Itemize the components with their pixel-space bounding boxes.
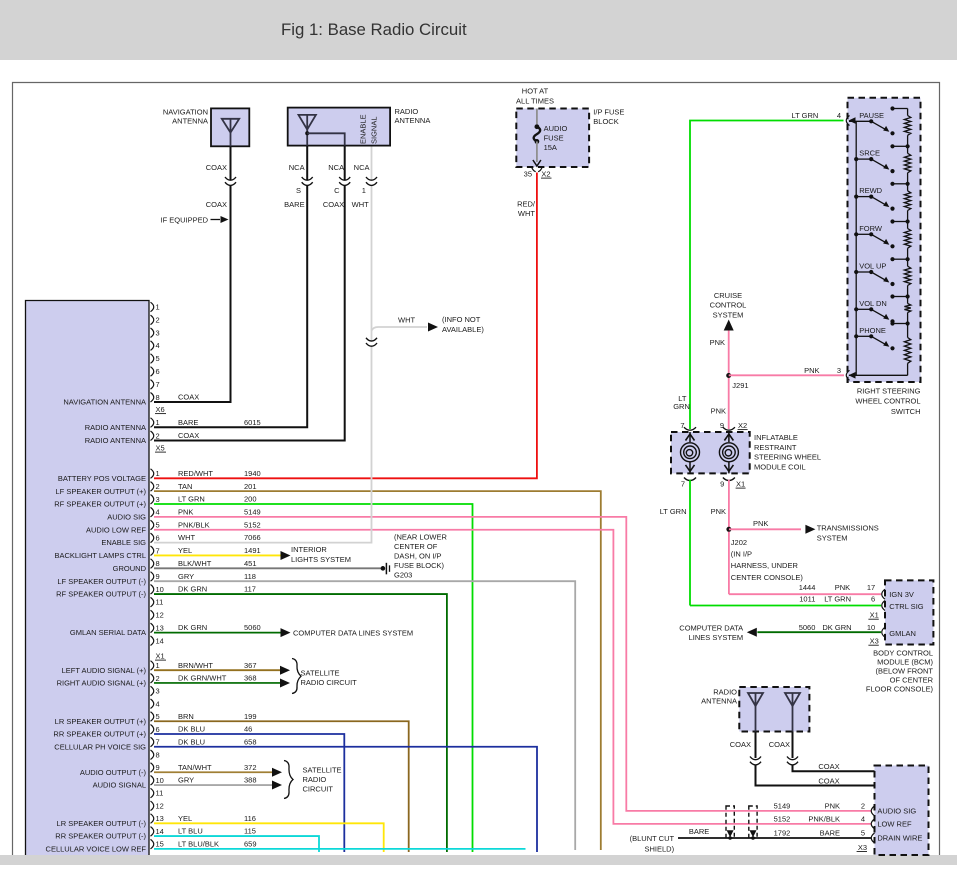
svg-text:COAX: COAX xyxy=(206,200,227,209)
svg-text:(BELOW FRONT: (BELOW FRONT xyxy=(876,667,934,676)
svg-text:SHIELD): SHIELD) xyxy=(645,845,675,854)
svg-text:BLK/WHT: BLK/WHT xyxy=(178,559,212,568)
svg-text:COAX: COAX xyxy=(730,740,751,749)
svg-text:12: 12 xyxy=(156,801,164,810)
svg-text:X3: X3 xyxy=(858,843,867,852)
svg-text:COMPUTER DATA: COMPUTER DATA xyxy=(679,624,743,633)
svg-text:X3: X3 xyxy=(870,637,879,646)
svg-text:8: 8 xyxy=(156,750,160,759)
svg-text:LT GRN: LT GRN xyxy=(178,495,205,504)
svg-text:INTERIOR: INTERIOR xyxy=(291,545,327,554)
svg-text:RF SPEAKER OUTPUT (-): RF SPEAKER OUTPUT (-) xyxy=(56,590,146,599)
svg-text:ENABLE: ENABLE xyxy=(359,114,368,144)
svg-text:X6: X6 xyxy=(156,405,165,414)
svg-text:12: 12 xyxy=(156,611,164,620)
svg-text:116: 116 xyxy=(244,814,256,823)
svg-text:14: 14 xyxy=(156,636,164,645)
svg-text:COAX: COAX xyxy=(818,762,839,771)
svg-text:PNK: PNK xyxy=(753,519,768,528)
svg-text:S: S xyxy=(296,186,301,195)
svg-text:1444: 1444 xyxy=(799,583,816,592)
svg-text:6: 6 xyxy=(871,595,875,604)
svg-text:RR SPEAKER OUTPUT (-): RR SPEAKER OUTPUT (-) xyxy=(55,832,146,841)
svg-text:115: 115 xyxy=(244,827,256,836)
svg-text:(BLUNT CUT: (BLUNT CUT xyxy=(630,834,675,843)
svg-text:46: 46 xyxy=(244,725,252,734)
svg-text:PNK/BLK: PNK/BLK xyxy=(178,520,210,529)
svg-text:199: 199 xyxy=(244,712,257,721)
svg-text:ALL TIMES: ALL TIMES xyxy=(516,97,554,106)
svg-text:ENABLE SIG: ENABLE SIG xyxy=(101,538,146,547)
svg-text:368: 368 xyxy=(244,674,257,683)
svg-text:NCA: NCA xyxy=(328,163,344,172)
svg-text:WHEEL CONTROL: WHEEL CONTROL xyxy=(855,397,920,406)
svg-text:451: 451 xyxy=(244,559,257,568)
svg-text:(INFO NOT: (INFO NOT xyxy=(442,315,481,324)
svg-text:LF SPEAKER OUTPUT (+): LF SPEAKER OUTPUT (+) xyxy=(55,487,146,496)
svg-text:7: 7 xyxy=(681,480,685,489)
svg-text:HARNESS, UNDER: HARNESS, UNDER xyxy=(731,561,799,570)
svg-text:FUSE BLOCK): FUSE BLOCK) xyxy=(394,561,445,570)
svg-text:3: 3 xyxy=(156,687,160,696)
svg-text:DK GRN: DK GRN xyxy=(822,623,851,632)
svg-text:AUDIO SIG: AUDIO SIG xyxy=(107,512,146,521)
svg-text:WHT: WHT xyxy=(518,209,535,218)
svg-text:FUSE: FUSE xyxy=(544,133,564,142)
svg-text:2: 2 xyxy=(156,431,160,440)
svg-text:CTRL SIG: CTRL SIG xyxy=(889,602,923,611)
svg-text:NCA: NCA xyxy=(289,163,305,172)
svg-text:REWD: REWD xyxy=(859,186,882,195)
svg-text:7066: 7066 xyxy=(244,533,261,542)
svg-text:3: 3 xyxy=(156,495,160,504)
svg-text:PNK: PNK xyxy=(710,338,725,347)
svg-text:COAX: COAX xyxy=(818,776,839,785)
svg-text:Fig 1: Base Radio Circuit: Fig 1: Base Radio Circuit xyxy=(281,20,467,39)
svg-text:AUDIO: AUDIO xyxy=(544,124,568,133)
svg-text:BARE: BARE xyxy=(820,829,840,838)
svg-text:STEERING WHEEL: STEERING WHEEL xyxy=(754,453,821,462)
svg-text:ANTENNA: ANTENNA xyxy=(701,697,737,706)
svg-text:2: 2 xyxy=(156,674,160,683)
svg-text:4: 4 xyxy=(156,699,160,708)
svg-text:PHONE: PHONE xyxy=(859,326,886,335)
svg-text:GRY: GRY xyxy=(178,776,194,785)
svg-text:RADIO: RADIO xyxy=(303,775,327,784)
svg-text:10: 10 xyxy=(156,585,164,594)
svg-text:AUDIO SIG: AUDIO SIG xyxy=(877,807,916,816)
svg-text:X2: X2 xyxy=(738,421,747,430)
svg-text:SYSTEM: SYSTEM xyxy=(713,311,744,320)
svg-text:LR SPEAKER OUTPUT (-): LR SPEAKER OUTPUT (-) xyxy=(57,819,147,828)
svg-text:LT GRN: LT GRN xyxy=(824,595,851,604)
svg-text:WHT: WHT xyxy=(398,316,415,325)
svg-text:11: 11 xyxy=(156,598,164,607)
svg-text:(NEAR LOWER: (NEAR LOWER xyxy=(394,532,448,541)
svg-text:10: 10 xyxy=(867,623,875,632)
svg-text:X1: X1 xyxy=(156,652,165,661)
svg-text:SATELLITE: SATELLITE xyxy=(301,669,340,678)
svg-text:5152: 5152 xyxy=(244,520,261,529)
svg-text:RED/WHT: RED/WHT xyxy=(178,469,213,478)
svg-text:YEL: YEL xyxy=(178,814,192,823)
svg-text:2: 2 xyxy=(156,482,160,491)
svg-text:ANTENNA: ANTENNA xyxy=(172,117,208,126)
svg-text:14: 14 xyxy=(156,827,164,836)
svg-text:659: 659 xyxy=(244,839,257,848)
svg-text:201: 201 xyxy=(244,482,257,491)
svg-text:J291: J291 xyxy=(732,381,748,390)
svg-text:BRN/WHT: BRN/WHT xyxy=(178,661,213,670)
svg-text:X5: X5 xyxy=(156,444,165,453)
svg-text:6: 6 xyxy=(156,367,160,376)
svg-text:1: 1 xyxy=(156,418,160,427)
svg-text:35: 35 xyxy=(524,170,532,179)
svg-text:LEFT AUDIO SIGNAL (+): LEFT AUDIO SIGNAL (+) xyxy=(62,666,147,675)
svg-text:9: 9 xyxy=(156,572,160,581)
svg-text:CONTROL: CONTROL xyxy=(710,301,747,310)
svg-text:DK BLU: DK BLU xyxy=(178,725,205,734)
svg-text:CIRCUIT: CIRCUIT xyxy=(303,785,334,794)
svg-text:5: 5 xyxy=(156,354,160,363)
svg-text:1940: 1940 xyxy=(244,469,261,478)
svg-text:BARE: BARE xyxy=(178,418,198,427)
svg-text:15: 15 xyxy=(156,840,164,849)
svg-text:BLOCK: BLOCK xyxy=(593,117,618,126)
svg-text:TAN: TAN xyxy=(178,482,192,491)
svg-text:4: 4 xyxy=(156,508,160,517)
svg-text:ANTENNA: ANTENNA xyxy=(395,116,431,125)
svg-text:367: 367 xyxy=(244,661,257,670)
svg-text:BACKLIGHT LAMPS CTRL: BACKLIGHT LAMPS CTRL xyxy=(54,551,146,560)
svg-text:388: 388 xyxy=(244,776,257,785)
svg-text:RADIO ANTENNA: RADIO ANTENNA xyxy=(85,423,146,432)
svg-text:CRUISE: CRUISE xyxy=(714,291,742,300)
svg-text:LT BLU: LT BLU xyxy=(178,827,203,836)
svg-text:RESTRAINT: RESTRAINT xyxy=(754,443,797,452)
svg-text:RF SPEAKER OUTPUT (+): RF SPEAKER OUTPUT (+) xyxy=(54,500,146,509)
svg-text:PNK: PNK xyxy=(711,407,726,416)
svg-text:FORW: FORW xyxy=(859,224,883,233)
svg-text:7: 7 xyxy=(156,738,160,747)
svg-text:X1: X1 xyxy=(870,611,879,620)
svg-text:GROUND: GROUND xyxy=(113,564,147,573)
svg-text:COMPUTER DATA LINES SYSTEM: COMPUTER DATA LINES SYSTEM xyxy=(293,629,413,638)
svg-text:3: 3 xyxy=(156,328,160,337)
svg-text:AUDIO LOW REF: AUDIO LOW REF xyxy=(86,525,146,534)
svg-text:IGN 3V: IGN 3V xyxy=(889,590,914,599)
svg-text:NCA: NCA xyxy=(354,163,370,172)
svg-text:CENTER CONSOLE): CENTER CONSOLE) xyxy=(731,573,804,582)
svg-text:TAN/WHT: TAN/WHT xyxy=(178,763,212,772)
svg-text:PNK: PNK xyxy=(825,802,840,811)
svg-text:RADIO: RADIO xyxy=(395,107,419,116)
svg-text:9: 9 xyxy=(720,480,724,489)
svg-text:CELLULAR PH VOICE SIG: CELLULAR PH VOICE SIG xyxy=(54,742,146,751)
svg-text:RADIO CIRCUIT: RADIO CIRCUIT xyxy=(301,678,358,687)
svg-text:SIGNAL: SIGNAL xyxy=(370,116,379,144)
svg-text:DK BLU: DK BLU xyxy=(178,737,205,746)
svg-text:PNK: PNK xyxy=(835,583,850,592)
svg-text:PNK: PNK xyxy=(178,507,193,516)
svg-text:9: 9 xyxy=(156,763,160,772)
svg-text:6015: 6015 xyxy=(244,418,261,427)
svg-text:WHT: WHT xyxy=(178,533,195,542)
svg-text:7: 7 xyxy=(156,380,160,389)
svg-text:COAX: COAX xyxy=(178,393,199,402)
svg-text:DK GRN: DK GRN xyxy=(178,585,207,594)
svg-text:COAX: COAX xyxy=(769,740,790,749)
svg-text:SRCE: SRCE xyxy=(859,149,880,158)
svg-text:RIGHT STEERING: RIGHT STEERING xyxy=(857,387,921,396)
svg-text:LT BLU/BLK: LT BLU/BLK xyxy=(178,839,219,848)
svg-text:IF EQUIPPED: IF EQUIPPED xyxy=(160,216,208,225)
svg-text:8: 8 xyxy=(156,559,160,568)
svg-text:1011: 1011 xyxy=(799,595,815,604)
svg-text:200: 200 xyxy=(244,495,257,504)
svg-text:WHT: WHT xyxy=(352,200,369,209)
svg-text:MODULE (BCM): MODULE (BCM) xyxy=(877,657,933,666)
svg-text:LOW REF: LOW REF xyxy=(877,820,912,829)
svg-text:6: 6 xyxy=(156,533,160,542)
svg-text:DASH, ON I/P: DASH, ON I/P xyxy=(394,551,442,560)
svg-text:VOL DN: VOL DN xyxy=(859,299,887,308)
svg-text:OF CENTER: OF CENTER xyxy=(890,676,934,685)
svg-text:HOT AT: HOT AT xyxy=(522,87,549,96)
svg-text:8: 8 xyxy=(156,393,160,402)
svg-text:SWITCH: SWITCH xyxy=(891,407,921,416)
svg-text:G203: G203 xyxy=(394,570,412,579)
svg-text:RED/: RED/ xyxy=(517,200,536,209)
svg-text:X1: X1 xyxy=(736,480,745,489)
svg-text:RIGHT AUDIO SIGNAL (+): RIGHT AUDIO SIGNAL (+) xyxy=(57,679,147,688)
svg-text:3: 3 xyxy=(837,366,841,375)
svg-text:5060: 5060 xyxy=(244,623,261,632)
svg-text:1792: 1792 xyxy=(774,829,791,838)
svg-text:AUDIO SIGNAL: AUDIO SIGNAL xyxy=(93,781,146,790)
svg-text:SYSTEM: SYSTEM xyxy=(817,533,848,542)
svg-text:4: 4 xyxy=(156,341,160,350)
svg-text:5149: 5149 xyxy=(244,507,261,516)
svg-text:AUDIO OUTPUT (-): AUDIO OUTPUT (-) xyxy=(80,768,147,777)
svg-text:LINES SYSTEM: LINES SYSTEM xyxy=(689,633,744,642)
svg-text:117: 117 xyxy=(244,585,256,594)
svg-text:DRAIN WIRE: DRAIN WIRE xyxy=(877,834,922,843)
svg-text:LF SPEAKER OUTPUT (-): LF SPEAKER OUTPUT (-) xyxy=(57,577,146,586)
svg-text:VOL UP: VOL UP xyxy=(859,262,886,271)
svg-text:1: 1 xyxy=(156,303,160,312)
svg-text:J202: J202 xyxy=(731,538,747,547)
svg-text:11: 11 xyxy=(156,789,164,798)
svg-text:5149: 5149 xyxy=(774,802,791,811)
svg-text:NAVIGATION: NAVIGATION xyxy=(163,108,208,117)
svg-text:MODULE COIL: MODULE COIL xyxy=(754,462,806,471)
svg-text:TRANSMISSIONS: TRANSMISSIONS xyxy=(817,524,879,533)
svg-text:PNK: PNK xyxy=(804,366,819,375)
svg-text:AVAILABLE): AVAILABLE) xyxy=(442,325,484,334)
svg-text:5: 5 xyxy=(156,521,160,530)
svg-text:118: 118 xyxy=(244,572,256,581)
svg-text:GRY: GRY xyxy=(178,572,194,581)
svg-text:PAUSE: PAUSE xyxy=(859,111,884,120)
svg-text:BATTERY POS VOLTAGE: BATTERY POS VOLTAGE xyxy=(58,474,146,483)
svg-text:5: 5 xyxy=(861,829,865,838)
svg-text:RADIO ANTENNA: RADIO ANTENNA xyxy=(85,436,146,445)
svg-text:BARE: BARE xyxy=(689,827,709,836)
svg-text:PNK/BLK: PNK/BLK xyxy=(808,815,840,824)
svg-text:DK GRN/WHT: DK GRN/WHT xyxy=(178,674,227,683)
svg-text:1: 1 xyxy=(156,469,160,478)
svg-text:BARE: BARE xyxy=(284,200,304,209)
svg-text:5152: 5152 xyxy=(774,815,791,824)
svg-text:1: 1 xyxy=(156,661,160,670)
svg-text:CELLULAR VOICE LOW REF: CELLULAR VOICE LOW REF xyxy=(46,844,147,853)
svg-text:10: 10 xyxy=(156,776,164,785)
svg-text:COAX: COAX xyxy=(178,431,199,440)
svg-text:658: 658 xyxy=(244,737,257,746)
svg-text:15A: 15A xyxy=(544,143,557,152)
svg-text:2: 2 xyxy=(861,802,865,811)
svg-text:(IN I/P: (IN I/P xyxy=(731,550,752,559)
svg-text:372: 372 xyxy=(244,763,257,772)
svg-text:5: 5 xyxy=(156,712,160,721)
svg-text:6: 6 xyxy=(156,725,160,734)
svg-text:1: 1 xyxy=(362,186,366,195)
svg-text:DK GRN: DK GRN xyxy=(178,623,207,632)
svg-text:BODY CONTROL: BODY CONTROL xyxy=(873,648,933,657)
svg-text:INFLATABLE: INFLATABLE xyxy=(754,433,798,442)
svg-text:I/P FUSE: I/P FUSE xyxy=(593,108,624,117)
svg-text:1491: 1491 xyxy=(244,546,261,555)
svg-text:BRN: BRN xyxy=(178,712,194,721)
svg-text:YEL: YEL xyxy=(178,546,192,555)
svg-text:5060: 5060 xyxy=(799,623,816,632)
svg-text:FLOOR CONSOLE): FLOOR CONSOLE) xyxy=(866,685,934,694)
svg-text:4: 4 xyxy=(861,815,865,824)
svg-text:GMLAN SERIAL DATA: GMLAN SERIAL DATA xyxy=(70,628,146,637)
svg-text:SATELLITE: SATELLITE xyxy=(303,765,342,774)
svg-text:C: C xyxy=(334,186,340,195)
svg-text:GMLAN: GMLAN xyxy=(889,629,916,638)
svg-text:CENTER OF: CENTER OF xyxy=(394,542,438,551)
svg-text:LT GRN: LT GRN xyxy=(791,111,818,120)
svg-text:COAX: COAX xyxy=(206,163,227,172)
svg-text:RADIO: RADIO xyxy=(713,688,737,697)
svg-text:7: 7 xyxy=(156,546,160,555)
svg-text:13: 13 xyxy=(156,623,164,632)
svg-text:X2: X2 xyxy=(541,170,550,179)
svg-text:13: 13 xyxy=(156,814,164,823)
svg-text:4: 4 xyxy=(837,111,841,120)
svg-text:7: 7 xyxy=(680,421,684,430)
svg-text:COAX: COAX xyxy=(323,200,344,209)
svg-text:RR SPEAKER OUTPUT (+): RR SPEAKER OUTPUT (+) xyxy=(53,730,146,739)
svg-text:PNK: PNK xyxy=(711,507,726,516)
svg-text:2: 2 xyxy=(156,315,160,324)
svg-text:NAVIGATION ANTENNA: NAVIGATION ANTENNA xyxy=(63,398,146,407)
svg-text:LR SPEAKER OUTPUT (+): LR SPEAKER OUTPUT (+) xyxy=(55,717,147,726)
svg-text:GRN: GRN xyxy=(673,402,690,411)
svg-text:LT GRN: LT GRN xyxy=(660,507,687,516)
svg-text:17: 17 xyxy=(867,583,875,592)
svg-text:LIGHTS SYSTEM: LIGHTS SYSTEM xyxy=(291,555,351,564)
